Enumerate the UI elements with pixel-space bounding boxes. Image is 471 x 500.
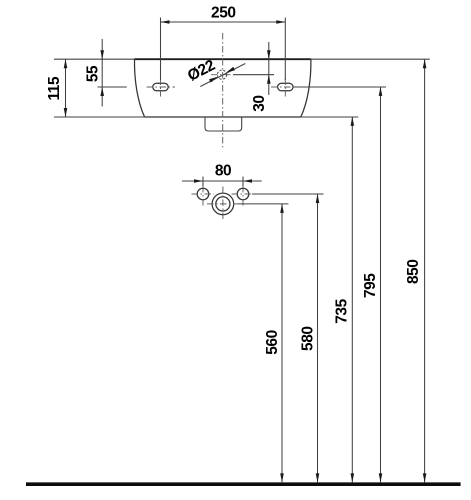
dimension 80 left extension line xyxy=(202,177,204,187)
basin top edge left extension line xyxy=(54,58,135,60)
dimension 850 bottom arrow xyxy=(423,473,427,482)
left slot vertical center line xyxy=(160,79,162,97)
dimension 735 top arrow xyxy=(351,117,355,126)
dimension 55 line xyxy=(101,39,103,107)
drain trap inner circle xyxy=(216,197,230,211)
drain trap vertical center line xyxy=(222,187,224,222)
dimension 795 top arrow xyxy=(379,87,383,96)
dimension 30 upper arrow (points down) xyxy=(267,50,271,59)
Ø22 leader line xyxy=(200,64,245,87)
dimension 580 top arrow xyxy=(316,194,320,203)
drain trap horizontal center line xyxy=(207,203,238,205)
dimension 580 line xyxy=(317,194,319,482)
main vertical center line xyxy=(222,33,224,147)
dimension 115 line xyxy=(65,59,67,117)
right supply hole extension line to 580 dim xyxy=(252,193,324,195)
dimension 250 right extension line xyxy=(284,18,286,81)
dimension 55 upper arrow (points down) xyxy=(100,50,104,59)
dimension 735 line xyxy=(351,117,353,483)
dimension 115 bottom arrow xyxy=(64,108,68,117)
basin bottom edge xyxy=(145,116,301,118)
right slot extension line to 795 dim xyxy=(293,86,386,88)
Ø22 lower-left arrow xyxy=(209,77,218,83)
svg-text:80: 80 xyxy=(215,162,231,179)
left supply hole horizontal center line xyxy=(192,193,215,195)
basin bottom right extension line (to 735 dim) xyxy=(301,116,358,118)
right supply hole vertical center line xyxy=(242,186,244,208)
right supply hole horizontal center line xyxy=(232,193,253,195)
svg-text:580: 580 xyxy=(299,326,316,351)
dimension 80 line xyxy=(182,180,262,182)
tap hole circle Ø22 xyxy=(217,70,226,79)
svg-text:560: 560 xyxy=(264,330,281,355)
dimension 80 right arrow (points left) xyxy=(243,179,252,183)
dimension 735 bottom arrow xyxy=(351,473,355,482)
svg-text:735: 735 xyxy=(334,298,351,323)
dimension 250 left arrow xyxy=(161,20,170,24)
floor line xyxy=(26,482,461,486)
dimension 560 bottom arrow xyxy=(280,473,284,482)
svg-text:55: 55 xyxy=(84,65,101,82)
basin top edge xyxy=(135,58,311,60)
dimension 560 top arrow xyxy=(280,204,284,213)
left supply hole circle xyxy=(197,188,209,200)
svg-text:115: 115 xyxy=(46,76,63,100)
dimension 55 lower reference line xyxy=(98,86,127,88)
basin top edge right extension line (to 850 dim) xyxy=(311,58,430,60)
basin right side wall xyxy=(301,59,311,117)
svg-text:30: 30 xyxy=(251,95,268,111)
left fixing slot xyxy=(153,83,168,91)
basin bottom left extension line (115 dim) xyxy=(54,116,145,118)
dimension 250 line xyxy=(161,21,286,23)
Ø22 upper-right arrow xyxy=(226,67,235,73)
dimension 580 bottom arrow xyxy=(316,473,320,482)
basin left side wall xyxy=(134,59,144,117)
svg-text:850: 850 xyxy=(405,260,422,285)
dimension 30 line xyxy=(268,42,270,95)
dimension 80 right extension line xyxy=(242,177,244,187)
right supply hole circle xyxy=(237,188,249,200)
dimension 250 left extension line xyxy=(160,18,162,81)
tap hole horizontal center line xyxy=(211,74,233,76)
drain outlet box xyxy=(205,117,242,131)
right slot vertical center line xyxy=(284,79,286,97)
left slot horizontal center line xyxy=(147,86,176,88)
dimension 80 left arrow (points right) xyxy=(194,179,203,183)
right slot horizontal center line xyxy=(271,86,293,88)
dimension 250 right arrow xyxy=(276,20,285,24)
dimension 560 line xyxy=(281,204,283,483)
dimension 115 top arrow xyxy=(64,59,68,68)
svg-text:795: 795 xyxy=(362,273,379,298)
svg-text:250: 250 xyxy=(211,5,236,22)
drain trap extension line to 560 dim xyxy=(238,203,288,205)
dimension 55 lower arrow (points up) xyxy=(100,87,104,96)
dimension 850 line xyxy=(424,59,426,482)
dimension 795 line xyxy=(380,87,382,483)
right fixing slot xyxy=(278,83,293,91)
tap hole extension line to 30 dim xyxy=(233,74,274,76)
drain trap outer circle xyxy=(212,193,234,215)
dimension 850 top arrow xyxy=(423,59,427,68)
left supply hole vertical center line xyxy=(202,186,204,208)
dimension 795 bottom arrow xyxy=(379,473,383,482)
dimension 30 lower arrow (points up) xyxy=(267,75,271,84)
